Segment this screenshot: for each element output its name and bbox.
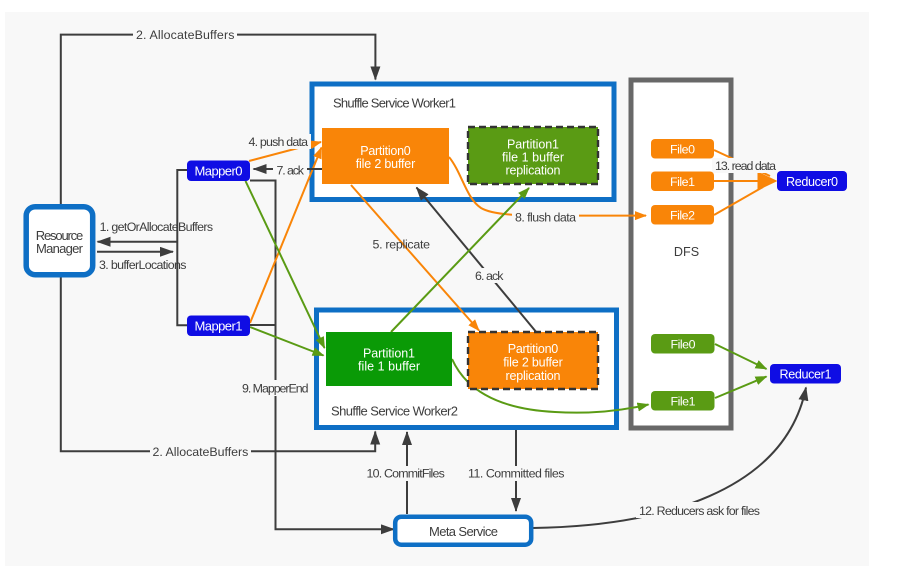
label 8. flush data: [512, 209, 579, 225]
arrowhead big orange into Reducer0: [758, 172, 778, 191]
svg-text:2. AllocateBuffers: 2. AllocateBuffers: [153, 445, 249, 459]
svg-text:Partition1: Partition1: [363, 347, 415, 361]
svg-text:file 1 buffer: file 1 buffer: [502, 151, 564, 165]
wire 7. ack: Partition0 to Mapper0: [254, 168, 323, 170]
svg-text:11. Committed files: 11. Committed files: [468, 467, 565, 481]
label 9. MapperEnd: [240, 380, 311, 396]
node File1 green: [651, 391, 715, 411]
label 12. Reducers ask for files: [636, 502, 763, 518]
svg-text:File0: File0: [671, 338, 696, 352]
svg-text:9. MapperEnd: 9. MapperEnd: [242, 382, 309, 396]
svg-text:1. getOrAllocateBuffers: 1. getOrAllocateBuffers: [100, 220, 214, 234]
svg-text:file 1 buffer: file 1 buffer: [358, 360, 420, 374]
wire read data: File2 to Reducer0: [714, 187, 763, 215]
label 2. AllocateBuffers bottom: [150, 443, 251, 460]
node Partition1 file 1 buffer replication: [468, 127, 598, 184]
svg-text:Shuffle Service Worker2: Shuffle Service Worker2: [331, 404, 458, 419]
wire 8. flush data: Partition0 to File2: [449, 157, 646, 216]
svg-text:12. Reducers ask for files: 12. Reducers ask for files: [639, 504, 760, 518]
label 11. Committed files: [465, 466, 568, 481]
wire bracket RM-to-mappers vertical: [177, 170, 187, 325]
node Shuffle Service Worker1: [312, 84, 614, 200]
wire push data green Mapper1 to Partition1: [250, 327, 324, 356]
svg-text:File0: File0: [670, 143, 695, 157]
node Mapper0: [187, 161, 250, 182]
wire 12. Reducers ask for files: Meta Service to Reducer1: [533, 388, 806, 529]
label 10. CommitFiles: [364, 466, 448, 481]
svg-text:Partition1: Partition1: [507, 138, 559, 152]
wire 11. Committed files: Worker2 down to Meta Service: [515, 430, 517, 511]
svg-text:6. ack: 6. ack: [475, 269, 504, 283]
label 13. read data: [712, 158, 780, 173]
wire green File1 to Reducer1: [715, 377, 767, 399]
svg-text:Reducer0: Reducer0: [786, 175, 838, 189]
label 4. push data: [246, 134, 311, 149]
svg-text:replication: replication: [506, 369, 561, 383]
svg-text:DFS: DFS: [674, 245, 699, 259]
node Reducer1: [770, 364, 841, 384]
svg-text:File1: File1: [670, 175, 695, 189]
label 2. AllocateBuffers top: [133, 26, 237, 43]
node Meta Service: [395, 517, 531, 545]
wire 4. push data: Mapper0 to Partition0: [249, 142, 321, 161]
svg-text:file 2 buffer: file 2 buffer: [503, 356, 563, 370]
svg-text:10. CommitFiles: 10. CommitFiles: [367, 467, 445, 481]
svg-text:Reducer1: Reducer1: [780, 368, 832, 382]
svg-text:4. push data: 4. push data: [249, 135, 309, 149]
node Reducer0: [777, 171, 847, 191]
node Shuffle Service Worker2: [317, 310, 617, 428]
svg-text:Manager: Manager: [36, 241, 84, 256]
wire 3. bufferLocations arrow to bracket: [97, 251, 173, 253]
wire push data green Mapper0 to Partition1: [246, 181, 325, 348]
node Resource Manager: [26, 207, 93, 275]
wire 6. ack: Partition0 replication to Partition0: [417, 188, 538, 334]
svg-text:7. ack: 7. ack: [277, 164, 305, 178]
svg-text:file 2 buffer: file 2 buffer: [356, 157, 416, 171]
svg-text:Mapper1: Mapper1: [195, 319, 243, 334]
wire read data: File1 to Reducer0: [714, 180, 765, 182]
node DFS: [631, 80, 731, 428]
label 7. ack: [273, 162, 307, 178]
svg-text:Partition0: Partition0: [360, 144, 411, 158]
wire flush green: Partition1 to green File1: [452, 359, 649, 413]
svg-text:Mapper0: Mapper0: [195, 164, 243, 179]
svg-text:13. read data: 13. read data: [715, 159, 776, 173]
svg-text:8. flush data: 8. flush data: [515, 211, 576, 225]
node Partition1 file 1 buffer: [326, 332, 452, 386]
wire green File0 to Reducer1: [715, 344, 767, 369]
node Partition0 file 2 buffer replication: [468, 332, 598, 389]
wire Mapper1 stub to MapperEnd line: [250, 324, 276, 326]
svg-text:Shuffle Service Worker1: Shuffle Service Worker1: [333, 96, 456, 111]
node Partition0 file 2 buffer: [322, 128, 449, 184]
wire 2. AllocateBuffers top: RM top to Worker1 top: [61, 35, 376, 204]
wire replicate green: Partition1 to Partition1 replication: [391, 188, 529, 332]
svg-text:Meta Service: Meta Service: [429, 524, 498, 539]
label 6. ack: [472, 268, 507, 283]
node File1 orange: [651, 172, 714, 192]
wire read data: File0 to Reducer0: [714, 150, 770, 176]
svg-text:3. bufferLocations: 3. bufferLocations: [99, 258, 186, 272]
node File0 orange: [651, 139, 714, 159]
svg-text:2. AllocateBuffers: 2. AllocateBuffers: [136, 28, 234, 42]
svg-text:File1: File1: [671, 395, 696, 409]
node File2 orange: [651, 205, 714, 225]
wire 2. AllocateBuffers bottom: RM bottom to Worker2 bottom: [61, 277, 375, 451]
wire 5. replicate: Partition0 to Partition0 replication: [351, 185, 479, 331]
wire 10. CommitFiles: Meta Service up to Worker2: [406, 432, 408, 514]
svg-text:Partition0: Partition0: [508, 342, 559, 356]
svg-text:replication: replication: [506, 164, 561, 178]
wire 1. getOrAllocateBuffers arrow into RM: [98, 241, 178, 243]
node File0 green: [651, 334, 715, 354]
wire push data Mapper1 to Partition0: [250, 148, 322, 324]
svg-text:File2: File2: [670, 209, 695, 223]
svg-text:5. replicate: 5. replicate: [373, 238, 431, 252]
node Mapper1: [187, 316, 250, 337]
wire 9. MapperEnd: mappers down to Meta Service: [250, 181, 394, 530]
